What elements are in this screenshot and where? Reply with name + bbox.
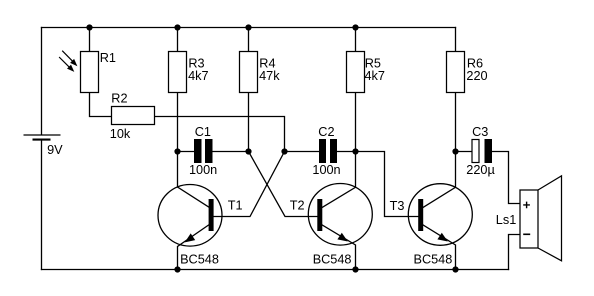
wire T2 emitter — [322, 225, 355, 270]
svg-text:T3: T3 — [390, 199, 405, 213]
capacitor C1 100n — [189, 125, 217, 177]
resistor R3 4k7 — [169, 52, 209, 93]
node R1 top — [86, 24, 92, 30]
wire T2 base diagonal — [249, 152, 318, 217]
svg-text:BC548: BC548 — [414, 253, 453, 267]
svg-text:10k: 10k — [110, 127, 131, 141]
svg-text:100n: 100n — [312, 163, 340, 177]
svg-text:Ls1: Ls1 — [496, 213, 516, 227]
svg-text:C1: C1 — [195, 125, 211, 139]
wire node B to C2 — [285, 151, 320, 153]
wire R4 bottom to node C — [248, 93, 250, 152]
transistor T1 BC548 — [158, 185, 243, 267]
resistor R5 4k7 — [347, 52, 385, 93]
wire T2 collector — [322, 152, 355, 208]
wire battery top column — [41, 28, 43, 135]
wire speaker minus to bottom rail — [509, 235, 521, 270]
wire T1 base diagonal — [214, 152, 285, 217]
wire top rail — [42, 27, 456, 29]
svg-text:4k7: 4k7 — [365, 69, 385, 83]
svg-text:T1: T1 — [228, 199, 243, 213]
resistor R6 220 — [447, 52, 488, 93]
svg-text:R2: R2 — [111, 92, 127, 106]
wire R6 top — [455, 28, 457, 52]
LDR light arrow 1 — [62, 51, 77, 66]
wire T3 collector — [423, 152, 455, 208]
transistor T2 BC548 — [290, 184, 373, 267]
wire R3 top — [177, 28, 179, 52]
node A T1 collector — [174, 148, 180, 154]
svg-text:BC548: BC548 — [180, 252, 219, 266]
resistor R2 10k — [110, 92, 155, 141]
node R3 top — [174, 24, 180, 30]
node R4 top — [245, 24, 251, 30]
svg-text:C2: C2 — [318, 125, 334, 139]
wire R1 top — [89, 28, 91, 52]
wire R6 bottom to node E — [455, 93, 457, 152]
wire R1 bottom to R2 — [90, 93, 112, 117]
svg-text:220: 220 — [466, 69, 487, 83]
wire R5 top — [355, 28, 357, 52]
svg-text:100n: 100n — [189, 163, 217, 177]
resistor R1 (LDR) — [81, 51, 116, 92]
wire R2 to node B — [155, 117, 285, 152]
wire node E to C3 — [456, 151, 473, 153]
node E T3 collector — [452, 148, 458, 154]
node C R4 bottom — [245, 148, 251, 154]
node T3 emitter — [452, 266, 458, 272]
wire battery bottom column — [41, 140, 43, 270]
wire R5 bottom to node D — [355, 93, 357, 152]
svg-text:T2: T2 — [290, 199, 305, 213]
wire T3 emitter — [423, 225, 455, 270]
wire C2 to node D — [337, 151, 356, 153]
LDR light arrow 2 — [59, 57, 74, 72]
wire R4 top — [248, 28, 250, 52]
svg-text:R1: R1 — [100, 51, 116, 65]
resistor R4 47k — [240, 52, 281, 93]
battery B1 9V — [24, 135, 64, 157]
node T1 emitter — [174, 266, 180, 272]
capacitor C2 100n — [312, 125, 340, 177]
svg-text:BC548: BC548 — [313, 252, 352, 266]
wire C3 to speaker plus — [492, 152, 520, 204]
wire bottom rail — [42, 269, 509, 271]
speaker Ls1 — [496, 176, 562, 261]
node T2 emitter — [352, 266, 358, 272]
wire T1 emitter — [178, 225, 209, 270]
svg-text:220µ: 220µ — [466, 163, 495, 177]
node R5 top — [352, 24, 358, 30]
node B T1 base net — [281, 148, 287, 154]
transistor T3 BC548 — [390, 184, 473, 267]
wire R3 bottom to node A — [177, 93, 179, 152]
wire node D to T3 base — [356, 152, 419, 217]
wire T1 collector — [178, 152, 209, 208]
svg-text:C3: C3 — [472, 125, 488, 139]
wire node A to C1 — [178, 151, 195, 153]
capacitor C3 220u electrolytic — [466, 125, 495, 177]
svg-text:9V: 9V — [47, 143, 63, 157]
node D T2 collector — [352, 148, 358, 154]
svg-text:47k: 47k — [259, 69, 280, 83]
svg-text:4k7: 4k7 — [188, 69, 208, 83]
wire C1 to node C — [213, 151, 249, 153]
